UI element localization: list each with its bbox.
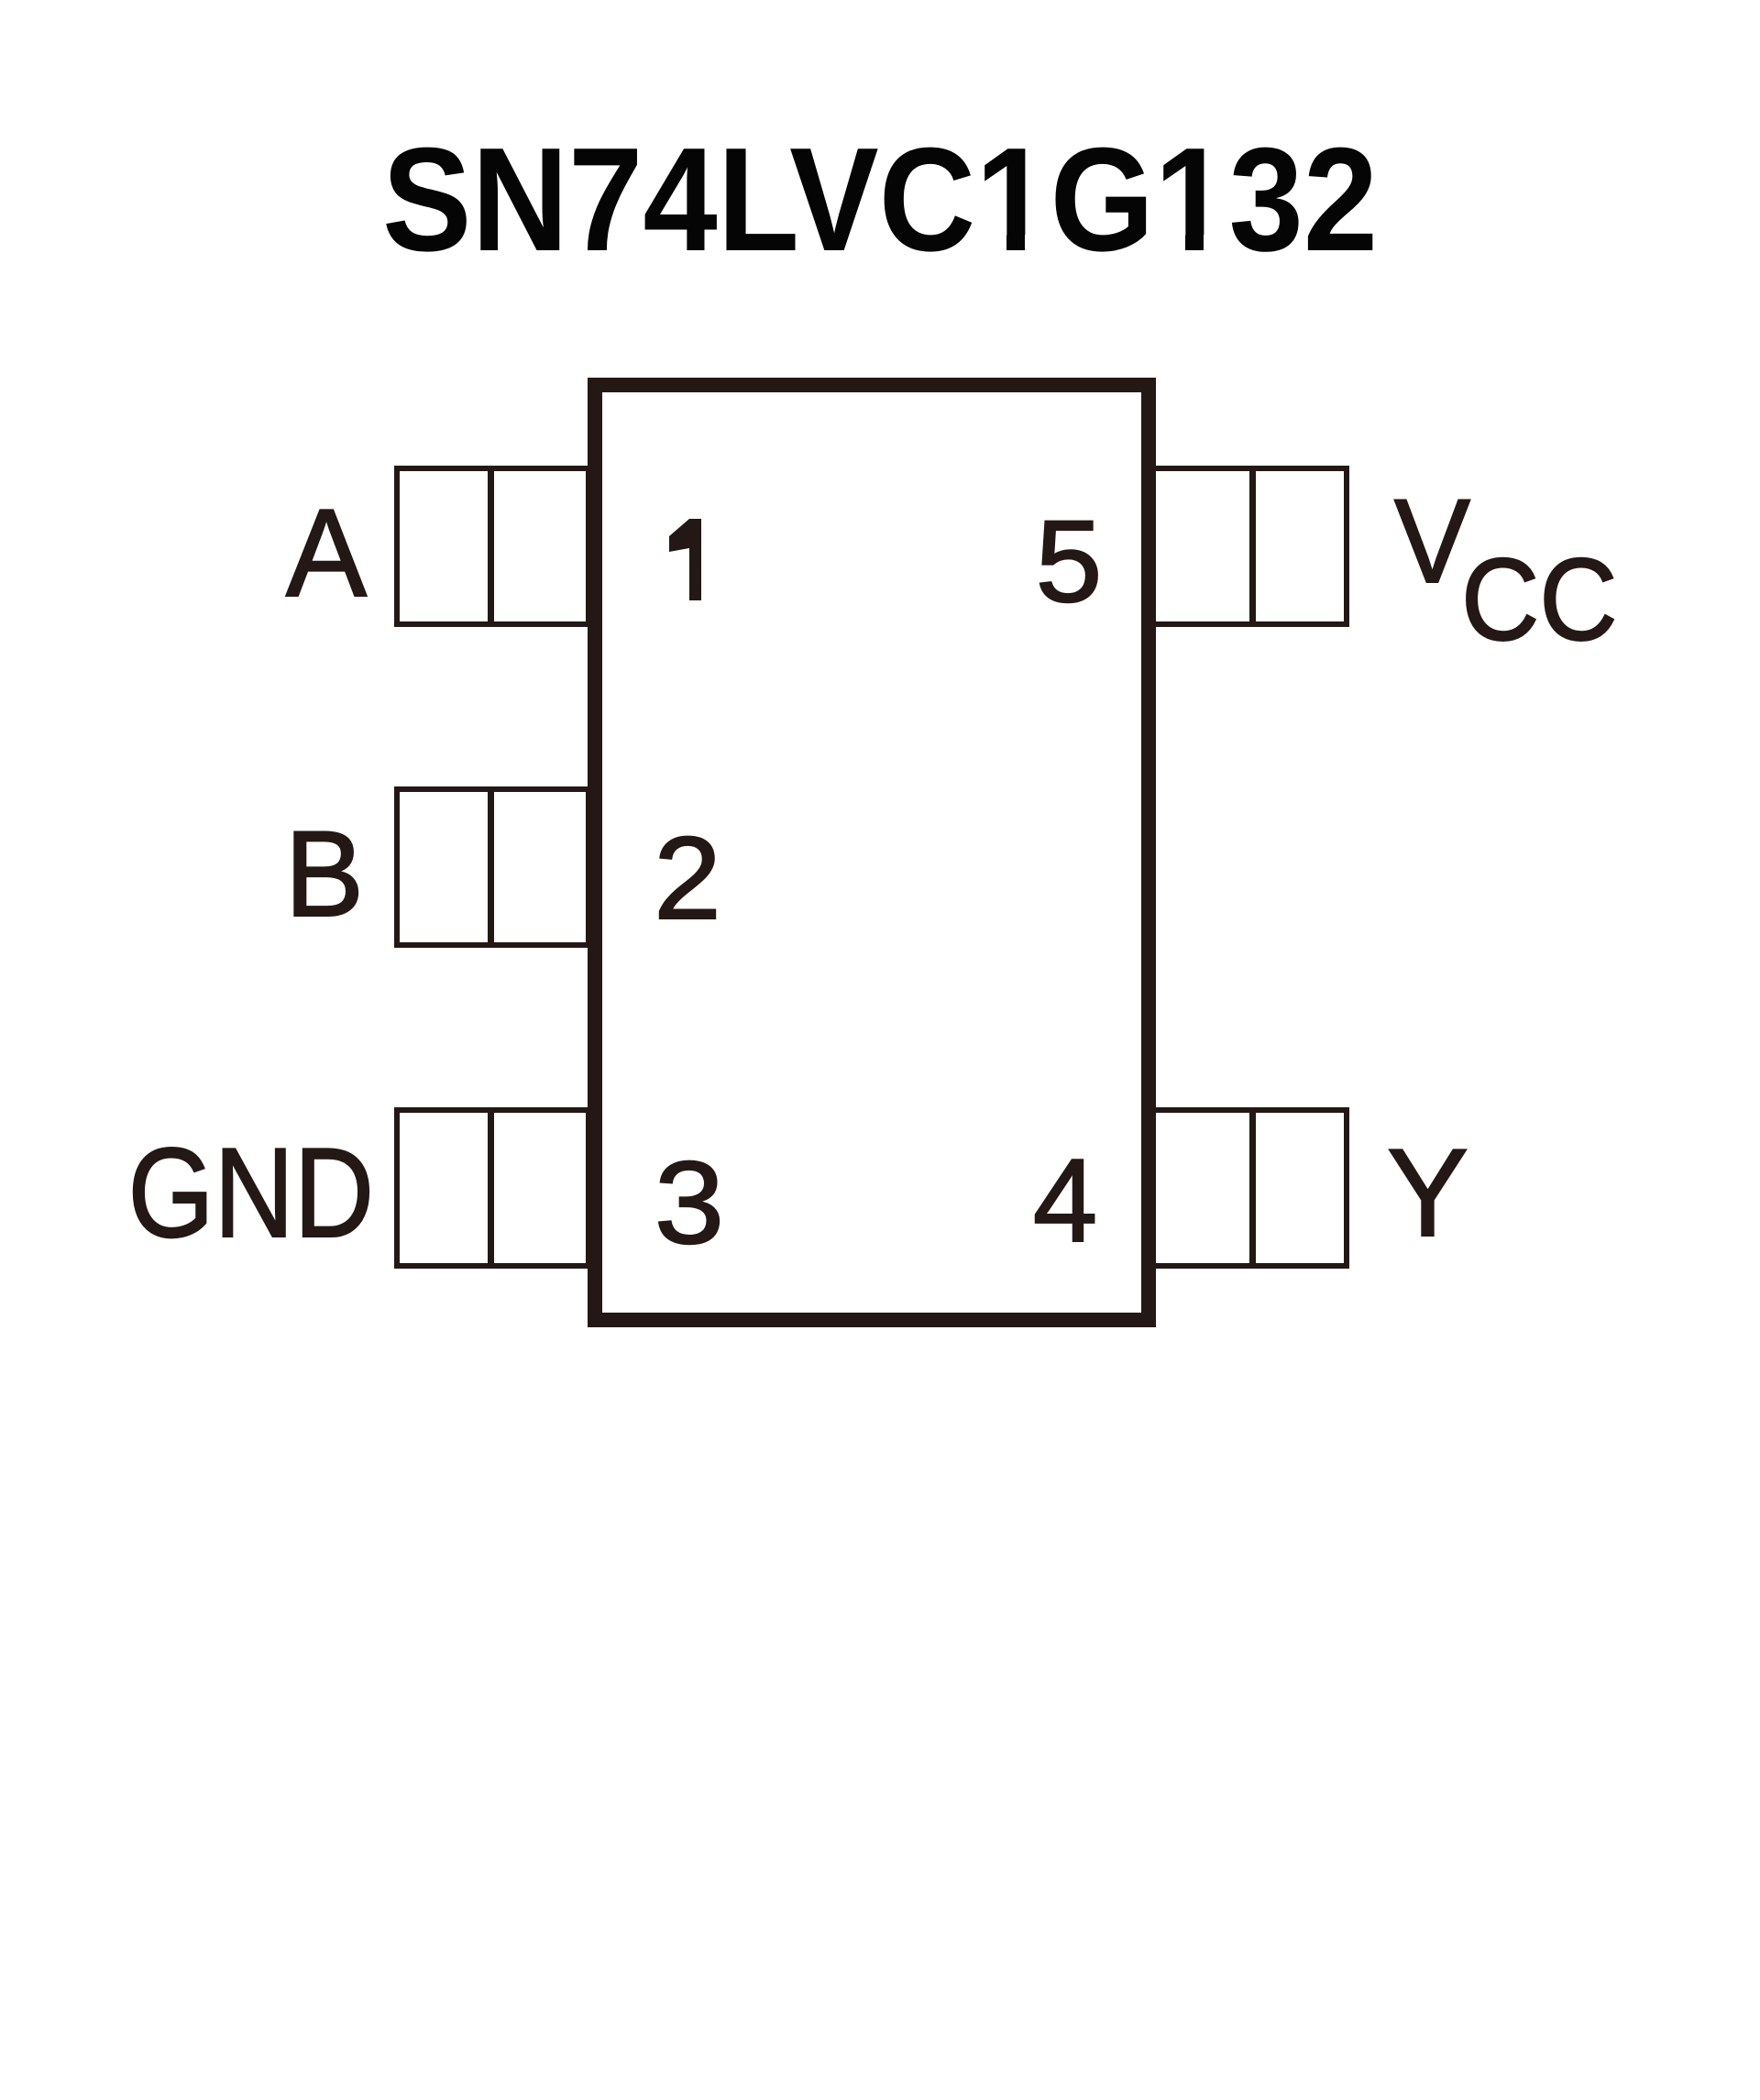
pin 5 pad divider [1249,471,1256,621]
label A (pin 1) [144,490,367,615]
white patch: remove foot serif of first "1" in title [981,235,1006,254]
pin 5 pad (VCC) [1149,466,1349,627]
pin 4 pad (Y) [1149,1107,1349,1269]
pin 1 pad divider [488,471,494,621]
label GND (pin 3) [87,1129,374,1257]
pin 2 pad (B) [394,786,591,948]
pin number 1 [665,513,710,610]
label VCC (pin 5): CC subscript [1461,542,1618,658]
pin number 3 [631,1145,748,1262]
pin 3 pad (GND) [394,1107,591,1269]
pin 1 pad (A) [394,466,591,627]
label B (pin 2) [141,814,364,936]
white patch: remove foot serif of second "1" in title [1160,235,1185,254]
pin number 2 [631,820,744,938]
label Y (pin 4) [1387,1130,1468,1255]
pin 3 pad divider [488,1113,494,1263]
pin number 5 [1012,503,1126,620]
label VCC (pin 5): V [1394,481,1470,600]
pin 2 pad divider [488,792,494,942]
IC body U1 (SOT-23-5 outline) [588,378,1156,1327]
pin number 4 [1011,1142,1119,1260]
title SN74LVC1G132 [382,126,1378,274]
pin 4 pad divider [1249,1113,1256,1263]
